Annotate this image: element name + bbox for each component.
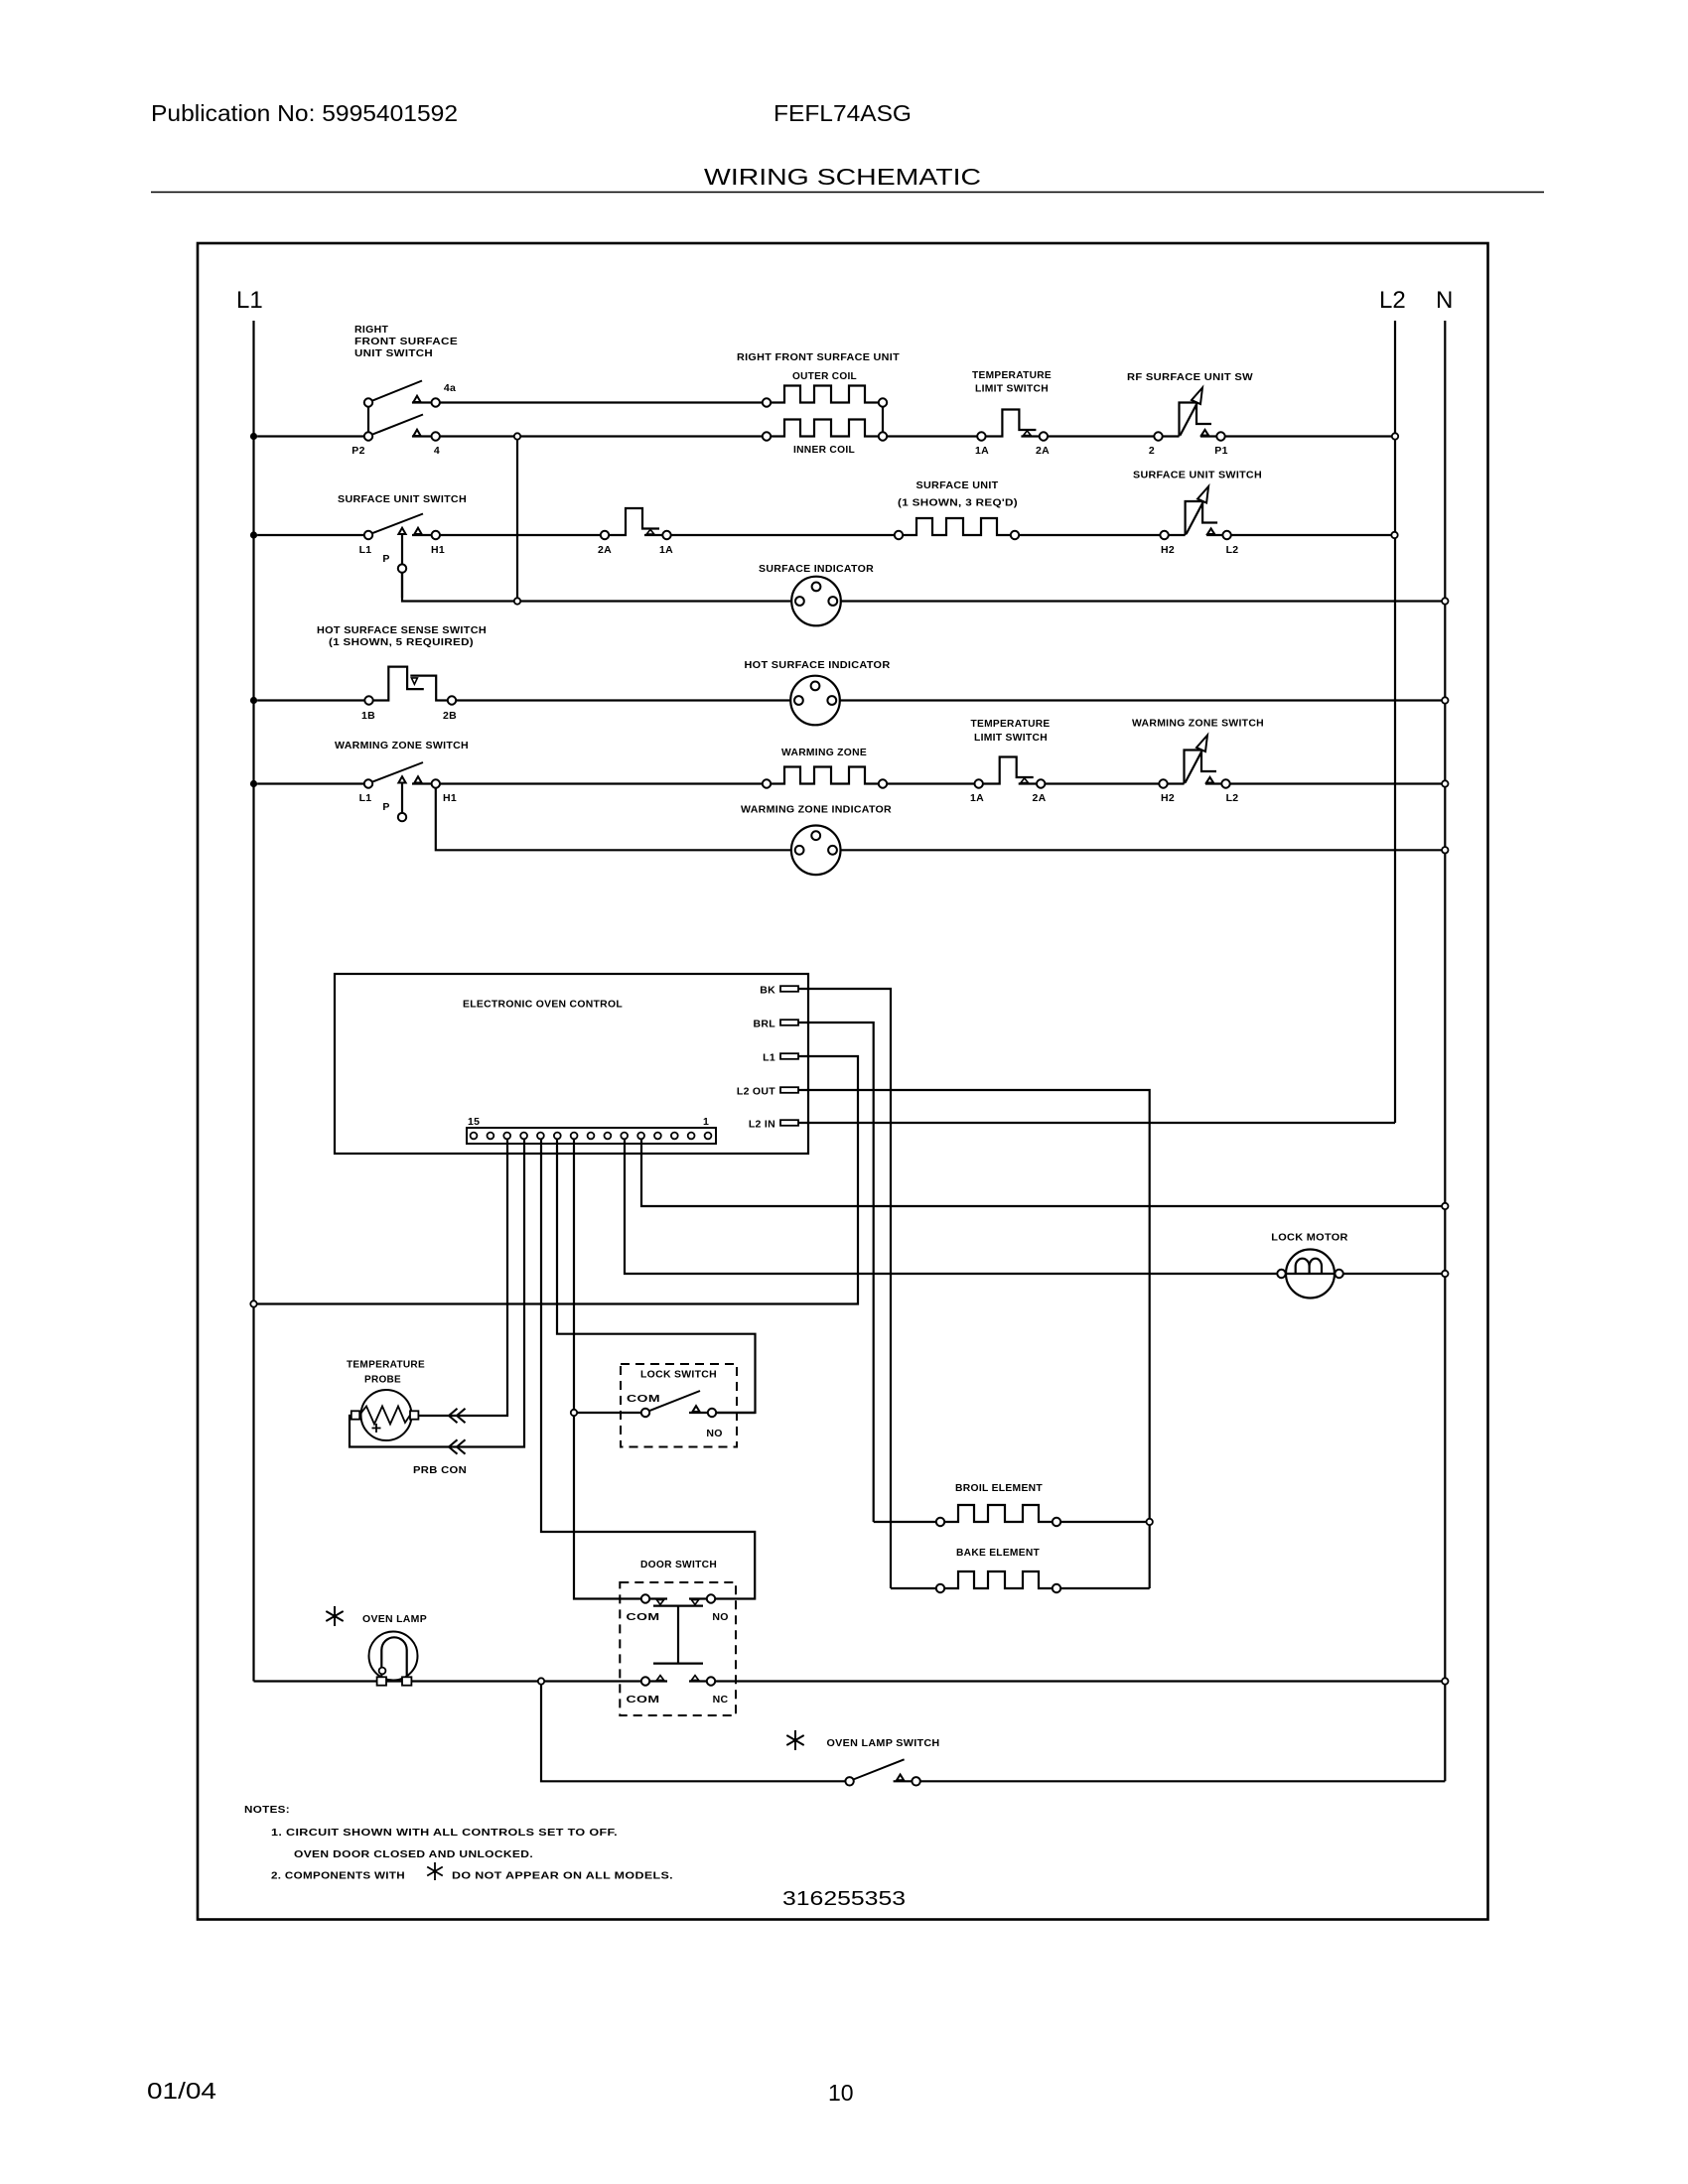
wire inner coil to 1A	[887, 435, 977, 437]
svg-text:1B: 1B	[361, 710, 375, 722]
wire L1 to row3 switch	[257, 534, 364, 536]
svg-text:BK: BK	[760, 985, 775, 997]
schematic border	[198, 243, 1488, 1920]
svg-text:PROBE: PROBE	[364, 1374, 401, 1386]
svg-text:LIMIT SWITCH: LIMIT SWITCH	[975, 383, 1049, 395]
wire bake to L2OUT	[1060, 1587, 1150, 1589]
wire L2 bus	[1394, 321, 1396, 1123]
wire pin13 to probe	[418, 1140, 507, 1417]
node N pin5	[1442, 1203, 1448, 1209]
svg-text:1: 1	[703, 1116, 709, 1128]
switch right front surface unit	[364, 381, 440, 441]
svg-text:P2: P2	[352, 445, 364, 457]
svg-text:NO: NO	[706, 1428, 722, 1439]
svg-text:FRONT SURFACE: FRONT SURFACE	[354, 336, 458, 347]
resistor surface unit	[895, 518, 1019, 539]
svg-text:1A: 1A	[659, 544, 673, 556]
svg-text:TEMPERATURE: TEMPERATURE	[347, 1359, 425, 1371]
node N warming indicator	[1442, 847, 1448, 853]
node L1 row3	[250, 531, 257, 538]
wire 2B to hot indicator	[456, 699, 790, 701]
svg-text:UNIT SWITCH: UNIT SWITCH	[354, 347, 433, 359]
svg-text:1. CIRCUIT SHOWN WITH ALL CON: 1. CIRCUIT SHOWN WITH ALL CONTROLS SET T…	[271, 1827, 618, 1839]
switch temperature limit row5	[975, 757, 1046, 788]
svg-text:WARMING ZONE SWITCH: WARMING ZONE SWITCH	[335, 740, 469, 751]
node L2OUT broil	[1147, 1519, 1153, 1525]
electronic oven control box	[335, 974, 808, 1154]
svg-text:LOCK MOTOR: LOCK MOTOR	[1271, 1232, 1348, 1244]
svg-text:316255353: 316255353	[782, 1888, 906, 1910]
node N warming	[1442, 780, 1448, 786]
svg-text:SURFACE UNIT SWITCH: SURFACE UNIT SWITCH	[1133, 470, 1262, 481]
svg-text:L2 OUT: L2 OUT	[737, 1086, 775, 1098]
wire 1A to surface unit	[671, 534, 895, 536]
motor winding	[1296, 1259, 1322, 1274]
wire lock NO out	[716, 1412, 755, 1414]
wire row2 tap down	[516, 440, 518, 599]
svg-text:BAKE ELEMENT: BAKE ELEMENT	[956, 1547, 1040, 1559]
chevron pair lower	[449, 1439, 466, 1453]
lamp warming zone indicator	[791, 826, 841, 876]
wire BK to bake	[891, 1587, 936, 1589]
svg-text:15: 15	[468, 1116, 480, 1128]
svg-text:4a: 4a	[444, 382, 456, 394]
node lamp branch	[538, 1678, 544, 1684]
asterisk	[326, 1606, 343, 1626]
wire L2sw to L2	[1231, 534, 1395, 536]
wire pin12 to probe return	[350, 1140, 524, 1447]
terminal tab BK	[780, 986, 798, 992]
svg-text:H1: H1	[443, 792, 457, 804]
svg-text:01/04: 01/04	[147, 2078, 216, 2104]
asterisk notes	[427, 1862, 443, 1880]
door switch box	[620, 1582, 736, 1715]
node N lock motor	[1442, 1271, 1448, 1277]
title rule	[151, 192, 1544, 194]
svg-text:FEFL74ASG: FEFL74ASG	[774, 100, 912, 126]
wire H1 to warming coil	[440, 782, 763, 784]
lamp hot surface indicator	[790, 676, 840, 726]
svg-text:SURFACE UNIT SWITCH: SURFACE UNIT SWITCH	[338, 493, 467, 505]
terminal tab L1	[780, 1053, 798, 1059]
wire warming indicator to N	[841, 849, 1446, 851]
probe plus	[372, 1424, 381, 1433]
switch surface unit right	[1160, 486, 1230, 539]
svg-text:DOOR SWITCH: DOOR SWITCH	[640, 1559, 717, 1570]
svg-text:OVEN LAMP: OVEN LAMP	[362, 1613, 427, 1625]
wire 2A to RF switch	[1048, 435, 1154, 437]
upper pole link a	[649, 1597, 667, 1599]
svg-text:OVEN DOOR CLOSED AND UNLOCKED.: OVEN DOOR CLOSED AND UNLOCKED.	[294, 1848, 533, 1860]
svg-text:L2: L2	[1226, 792, 1239, 804]
svg-text:COM: COM	[627, 1611, 660, 1623]
lower pole link b	[689, 1680, 707, 1682]
svg-text:NOTES:: NOTES:	[244, 1804, 290, 1816]
svg-text:OVEN LAMP SWITCH: OVEN LAMP SWITCH	[827, 1737, 940, 1749]
node N hot surface	[1442, 697, 1448, 703]
motor through wire	[1286, 1273, 1335, 1275]
svg-text:OUTER COIL: OUTER COIL	[792, 370, 857, 382]
svg-text:(1 SHOWN, 3 REQ'D): (1 SHOWN, 3 REQ'D)	[898, 497, 1018, 509]
svg-text:10: 10	[828, 2080, 854, 2106]
svg-text:WARMING ZONE SWITCH: WARMING ZONE SWITCH	[1132, 718, 1264, 730]
node L2 row3	[1391, 532, 1397, 538]
lower bar	[653, 1662, 703, 1664]
lamp oven lamp	[369, 1632, 418, 1686]
connector terminal strip	[467, 1128, 716, 1144]
switch warming zone	[364, 762, 440, 821]
sense bump	[373, 667, 424, 701]
wire BK	[798, 989, 891, 1588]
svg-text:Publication No: 5995401592: Publication No: 5995401592	[151, 100, 458, 126]
svg-text:RIGHT FRONT SURFACE UNIT: RIGHT FRONT SURFACE UNIT	[737, 351, 900, 363]
svg-text:COM: COM	[627, 1393, 660, 1405]
terminal tab L2 IN	[780, 1120, 798, 1126]
node L1 tab node	[250, 1300, 256, 1306]
wire lamp branch down	[541, 1685, 845, 1782]
upper pole link b	[689, 1597, 707, 1599]
wire pin11 to door NO	[541, 1140, 755, 1599]
svg-text:TEMPERATURE: TEMPERATURE	[972, 369, 1052, 381]
wire pin9 tap to lock COM	[574, 1412, 641, 1414]
resistor bake element	[936, 1571, 1060, 1592]
svg-text:4: 4	[434, 445, 440, 457]
svg-text:1A: 1A	[970, 792, 984, 804]
svg-text:RIGHT: RIGHT	[354, 324, 388, 336]
svg-text:NC: NC	[713, 1694, 729, 1706]
svg-text:TEMPERATURE: TEMPERATURE	[971, 718, 1051, 730]
sense shelf	[410, 676, 448, 701]
wire H1 to warming indicator	[436, 788, 791, 851]
resistor warming zone	[763, 767, 887, 788]
svg-text:P1: P1	[1214, 445, 1227, 457]
node indicator tap	[514, 598, 520, 604]
filament	[381, 1637, 406, 1681]
probe zigzag	[359, 1407, 410, 1425]
svg-text:P: P	[382, 553, 389, 565]
node L2 row2	[1392, 433, 1398, 439]
svg-text:L2: L2	[1379, 287, 1406, 314]
wire L2 IN	[798, 1122, 1395, 1124]
svg-text:HOT SURFACE INDICATOR: HOT SURFACE INDICATOR	[745, 659, 891, 671]
svg-text:L2: L2	[1226, 544, 1239, 556]
svg-text:H1: H1	[431, 544, 445, 556]
switch surface unit row3	[364, 514, 440, 599]
actuator	[677, 1606, 679, 1664]
node L1 row2	[250, 433, 257, 440]
wire hot indicator to N	[840, 699, 1446, 701]
svg-text:PRB CON: PRB CON	[413, 1464, 467, 1476]
wire BRL	[798, 1023, 874, 1522]
wire H1 to 2A	[440, 534, 601, 536]
wire L1 to 1B	[257, 699, 364, 701]
svg-text:SURFACE UNIT: SURFACE UNIT	[916, 479, 999, 491]
wire BRL to broil	[874, 1521, 936, 1523]
svg-text:ELECTRONIC OVEN CONTROL: ELECTRONIC OVEN CONTROL	[463, 999, 623, 1011]
svg-text:RF SURFACE UNIT SW: RF SURFACE UNIT SW	[1127, 371, 1253, 383]
wire pin5 to N	[641, 1140, 1445, 1207]
svg-text:2A: 2A	[1036, 445, 1050, 457]
svg-text:L1: L1	[359, 544, 372, 556]
svg-text:2. COMPONENTS WITH: 2. COMPONENTS WITH	[271, 1870, 405, 1882]
svg-text:N: N	[1436, 287, 1453, 314]
wire surface unit to H2	[1019, 534, 1160, 536]
switch lock switch	[641, 1391, 716, 1417]
wire 4a to outer coil	[440, 401, 763, 403]
node row2 tap	[514, 433, 520, 439]
wire pin6 to lock motor	[625, 1140, 1277, 1275]
lock switch box	[621, 1364, 737, 1447]
switch rf surface unit	[1154, 388, 1224, 441]
switch temperature limit row2	[977, 410, 1048, 441]
svg-text:(1 SHOWN, 5 REQUIRED): (1 SHOWN, 5 REQUIRED)	[329, 636, 474, 648]
svg-text:SURFACE INDICATOR: SURFACE INDICATOR	[759, 563, 874, 575]
wire warming to N	[1230, 782, 1446, 784]
wire broil to L2OUT	[1060, 1521, 1150, 1523]
wire L1 bus	[252, 321, 254, 1682]
svg-text:LOCK SWITCH: LOCK SWITCH	[640, 1369, 717, 1381]
svg-text:COM: COM	[627, 1694, 660, 1706]
svg-text:WIRING SCHEMATIC: WIRING SCHEMATIC	[704, 164, 981, 190]
wire lamp switch to N	[920, 1780, 1446, 1782]
switch warming zone right	[1159, 736, 1229, 788]
resistor outer coil	[763, 386, 887, 407]
wire L1 to warming switch	[257, 782, 364, 784]
svg-text:INNER COIL: INNER COIL	[793, 444, 855, 456]
svg-text:BROIL ELEMENT: BROIL ELEMENT	[955, 1482, 1043, 1494]
svg-text:LIMIT SWITCH: LIMIT SWITCH	[974, 732, 1048, 744]
switch hot surface sense	[364, 667, 456, 705]
node pin9 lock tap	[571, 1410, 577, 1416]
upper bar	[653, 1604, 703, 1606]
svg-text:2A: 2A	[598, 544, 612, 556]
svg-text:H2: H2	[1161, 544, 1175, 556]
wire L1 to P2	[257, 435, 364, 437]
resistor broil element	[936, 1505, 1060, 1526]
svg-text:2B: 2B	[443, 710, 457, 722]
wire L1 to door lower	[254, 1680, 641, 1682]
svg-text:L1: L1	[763, 1052, 775, 1064]
node N surface indicator	[1442, 598, 1448, 604]
wire pin9 to door COM	[574, 1140, 641, 1599]
svg-text:BRL: BRL	[754, 1019, 776, 1030]
wire L1 tab	[257, 1056, 858, 1304]
switch door switch lower pole	[641, 1676, 715, 1686]
switch oven lamp switch	[845, 1759, 919, 1785]
motor lock motor	[1277, 1250, 1343, 1298]
wire P to indicator	[402, 573, 791, 602]
svg-text:2: 2	[1149, 445, 1155, 457]
chevron pair upper	[449, 1409, 466, 1423]
resistor temperature probe	[352, 1390, 419, 1440]
wire indicator to N	[841, 600, 1446, 602]
asterisk	[786, 1730, 803, 1750]
svg-text:NO: NO	[712, 1611, 728, 1623]
svg-text:L2 IN: L2 IN	[749, 1119, 775, 1131]
svg-text:L1: L1	[236, 287, 263, 314]
svg-text:P: P	[382, 801, 389, 813]
resistor inner coil	[763, 420, 887, 441]
wire 4 to inner coil	[440, 435, 763, 437]
svg-text:1A: 1A	[975, 445, 989, 457]
svg-text:H2: H2	[1161, 792, 1175, 804]
svg-text:HOT SURFACE SENSE SWITCH: HOT SURFACE SENSE SWITCH	[317, 624, 487, 636]
svg-text:WARMING ZONE INDICATOR: WARMING ZONE INDICATOR	[741, 804, 892, 816]
wire coil to 1A row5	[887, 782, 974, 784]
wire door NC to N	[715, 1680, 1445, 1682]
svg-text:2A: 2A	[1032, 792, 1046, 804]
node N door	[1442, 1678, 1448, 1684]
terminal tab BRL	[780, 1020, 798, 1025]
wire 2A to H2 row5	[1045, 782, 1159, 784]
svg-text:DO NOT APPEAR ON ALL MODELS.: DO NOT APPEAR ON ALL MODELS.	[452, 1870, 673, 1882]
wire lock motor to N	[1343, 1273, 1446, 1275]
wire coil join	[882, 407, 884, 433]
switch temperature limit row3	[601, 508, 671, 539]
terminal tab L2 OUT	[780, 1087, 798, 1093]
lower pole link a	[649, 1680, 667, 1682]
svg-text:WARMING ZONE: WARMING ZONE	[781, 747, 867, 758]
switch door switch upper pole	[641, 1594, 715, 1663]
wire P1 to L2	[1225, 435, 1395, 437]
wire N bus	[1444, 321, 1446, 1781]
wire L2 OUT	[798, 1090, 1150, 1588]
svg-text:L1: L1	[359, 792, 372, 804]
wire pin10 to lock NO	[557, 1140, 756, 1414]
node L1 row5	[250, 780, 257, 787]
lamp surface indicator	[791, 577, 841, 626]
node L1 row4	[250, 697, 257, 704]
